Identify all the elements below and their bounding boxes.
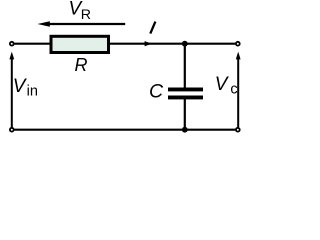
svg-text:C: C xyxy=(149,80,164,102)
resistor R xyxy=(51,36,109,52)
wire node A down to capacitor xyxy=(184,44,186,88)
node B junction dot xyxy=(182,127,188,133)
terminal top-left xyxy=(10,42,14,46)
label VR xyxy=(69,0,92,23)
wire capacitor down to node B xyxy=(184,99,186,130)
label I xyxy=(150,22,155,34)
svg-text:V: V xyxy=(13,76,28,97)
voltage arrow VR xyxy=(38,21,126,27)
terminal top-right xyxy=(236,42,240,46)
svg-text:R: R xyxy=(81,7,91,23)
svg-text:in: in xyxy=(27,83,38,99)
wire bottom xyxy=(15,129,236,131)
current arrow I xyxy=(145,41,152,46)
voltage arrow Vc xyxy=(236,52,241,127)
terminal bottom-right xyxy=(236,128,240,132)
terminal bottom-left xyxy=(10,128,14,132)
capacitor C xyxy=(168,88,203,100)
label Vin xyxy=(13,76,38,99)
wire resistor to node A xyxy=(109,43,235,45)
svg-text:c: c xyxy=(230,81,237,97)
voltage arrow Vin xyxy=(9,52,14,127)
svg-text:V: V xyxy=(215,74,230,95)
svg-text:R: R xyxy=(75,55,88,75)
label Vc xyxy=(215,74,238,97)
node A junction dot xyxy=(182,41,188,47)
wire top-left segment xyxy=(15,43,52,45)
